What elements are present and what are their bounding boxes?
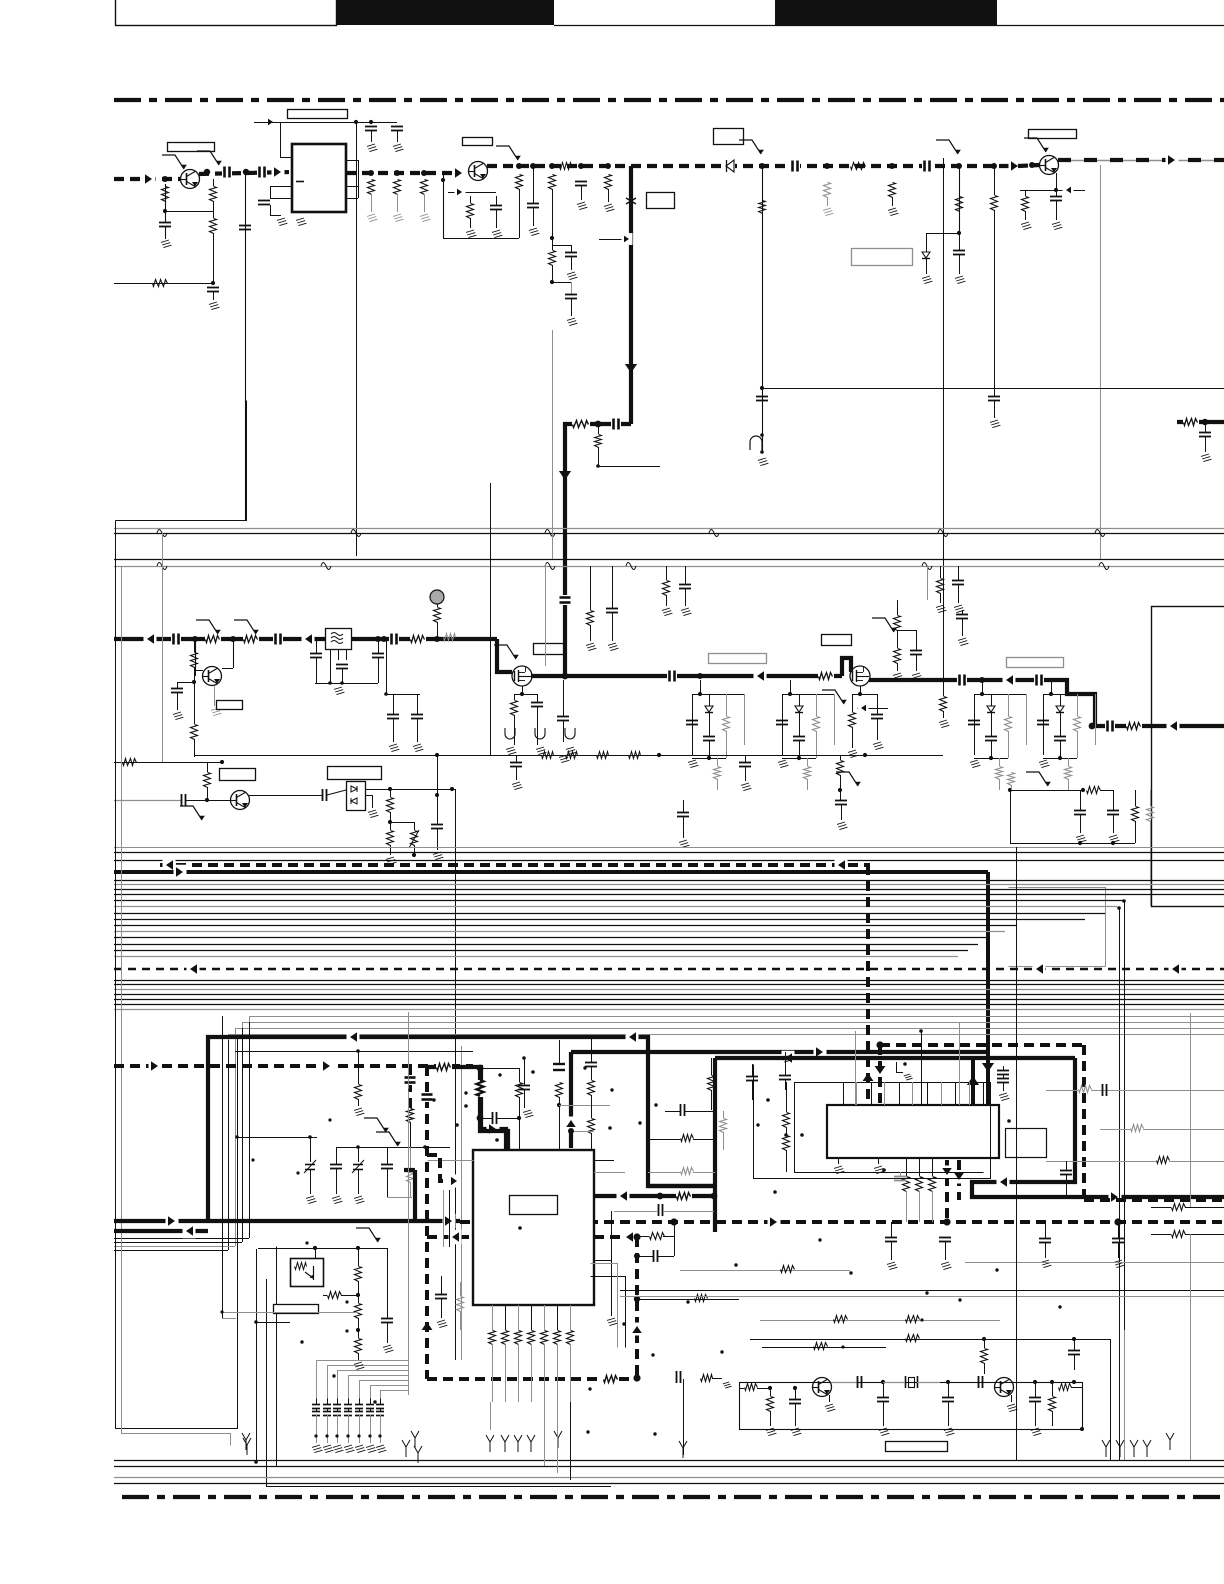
ground GL2 bbox=[536, 747, 546, 755]
ground GR12 bbox=[604, 204, 614, 212]
left margin vert2 bbox=[122, 567, 231, 1446]
resistor R68 h bbox=[1100, 1125, 1224, 1132]
wire hop bbox=[545, 563, 555, 570]
border dash-dot bottom bbox=[122, 1495, 1224, 1499]
node 994 bbox=[991, 163, 997, 169]
resistor R88 bbox=[595, 424, 602, 468]
ground GC63 bbox=[941, 1262, 951, 1270]
capacitor C62 bbox=[885, 1222, 897, 1260]
capacitor C51 bbox=[510, 755, 522, 780]
arrow ctrl3 bbox=[768, 1215, 781, 1230]
label box preDRV bbox=[709, 654, 767, 664]
ground GL1 bbox=[506, 747, 516, 755]
diode D1 series bbox=[723, 160, 735, 172]
resistor R47 bbox=[1132, 790, 1139, 843]
rail mid bottom bbox=[195, 753, 943, 757]
capacitor C12 bbox=[565, 295, 577, 317]
network match1 bbox=[686, 680, 745, 790]
bus line a1 bbox=[114, 847, 1224, 849]
ground GQ1 bbox=[161, 240, 171, 248]
dots U2 top bbox=[455, 1070, 612, 1142]
wire Q8 out bbox=[831, 1382, 857, 1384]
wire trim bot bbox=[387, 1197, 412, 1199]
capacitor array bbox=[355, 1398, 363, 1443]
wire 943 down bbox=[943, 158, 945, 680]
resistor R44 bbox=[837, 755, 844, 800]
ground GC41 bbox=[912, 673, 922, 681]
bold gate path bbox=[427, 1067, 506, 1150]
swoosh Q1 bbox=[162, 155, 187, 169]
resistor R79 h bbox=[739, 1384, 772, 1391]
bold ctrl dashed bbox=[460, 1218, 1224, 1225]
capacitor C48 series bbox=[182, 794, 231, 806]
ground GC62 bbox=[887, 1262, 897, 1270]
capacitor C45 bbox=[871, 694, 883, 740]
ground GCT2 bbox=[354, 1196, 364, 1204]
network match3 bbox=[968, 680, 1027, 790]
ground GR5 bbox=[367, 214, 377, 222]
shield outline gray bbox=[1009, 888, 1106, 967]
resistor R81 bbox=[1049, 1380, 1056, 1426]
capacitor array bbox=[344, 1398, 352, 1443]
opto outline box bbox=[266, 1279, 611, 1487]
bus line mid B bbox=[114, 533, 1224, 535]
wire 1016 bottom bbox=[1016, 1197, 1018, 1460]
ground GQ4 bbox=[211, 686, 221, 716]
node 892 bbox=[889, 163, 895, 169]
wire U2 pin bottom bbox=[570, 1305, 572, 1330]
capacitor array bbox=[376, 1398, 384, 1443]
arrow boxtop2 bbox=[626, 1030, 639, 1045]
arrow 1066a bbox=[149, 1059, 162, 1074]
resistor U2 pin bbox=[567, 1331, 574, 1345]
bold dashed vert947 bbox=[940, 1160, 955, 1222]
hook 415 bbox=[411, 1221, 419, 1448]
bus wire bbox=[114, 889, 1224, 891]
ground GR30 bbox=[586, 643, 596, 651]
arrow RX bbox=[163, 858, 176, 873]
bus wire lower bbox=[114, 1009, 1224, 1011]
ground GC87 bbox=[413, 744, 423, 752]
capacitor array bbox=[366, 1398, 374, 1443]
wire right 1296 bbox=[620, 1296, 1224, 1298]
wire U3 pin top bbox=[856, 1082, 858, 1105]
junction dot bbox=[818, 1238, 821, 1241]
wire U2 pin bottom bbox=[505, 1305, 507, 1330]
label box PA bbox=[1007, 658, 1064, 668]
ground GC40 bbox=[681, 608, 691, 616]
bus line a2 bbox=[114, 852, 1224, 854]
wire U2 pin drop bbox=[544, 1344, 546, 1402]
junction dot bbox=[686, 1300, 689, 1303]
wire AGC in bbox=[114, 281, 215, 285]
capacitor C11 bbox=[552, 245, 577, 270]
wire Q8 base up bbox=[771, 1347, 814, 1388]
wire U2 pin drop bbox=[557, 1344, 559, 1402]
wire Q6 out bold bbox=[531, 674, 842, 678]
capacitor C80 bbox=[1029, 1380, 1041, 1426]
wire U2 pin drop bbox=[531, 1344, 533, 1402]
wire hop bbox=[321, 563, 331, 570]
title block frame bbox=[116, 0, 337, 26]
capacitor C71 bbox=[746, 1064, 758, 1100]
hook 247 bbox=[243, 1438, 251, 1455]
wire U2 pin bottom bbox=[492, 1305, 494, 1330]
capacitor C46 bbox=[956, 610, 968, 636]
resistor R51 series bold bbox=[436, 1060, 452, 1074]
bottom rail 3 bbox=[114, 1477, 1224, 1479]
resistor R70 left1 bbox=[648, 1135, 715, 1142]
ground GC12 bbox=[567, 318, 577, 326]
resistor R23 series bbox=[1183, 415, 1199, 428]
bold dashed 1066 bbox=[114, 1064, 473, 1068]
junction dot bbox=[373, 1400, 376, 1403]
transistor Q1 bbox=[181, 170, 200, 189]
bold inner right bbox=[996, 1058, 1075, 1182]
fan left 1 bbox=[114, 1238, 249, 1240]
wire 683 drop bbox=[679, 1379, 687, 1458]
node mid 437 bbox=[434, 636, 440, 642]
resistor R61 bbox=[903, 1158, 910, 1222]
bus wire bbox=[114, 884, 1224, 886]
wire array fan bbox=[371, 1386, 409, 1399]
resistor U2 pin bbox=[502, 1331, 509, 1345]
resistor R40 bbox=[204, 762, 211, 802]
bold dashed 1237L bbox=[427, 1230, 473, 1245]
junction dot bbox=[995, 1268, 998, 1271]
ground array bbox=[344, 1445, 354, 1453]
capacitor C33 bbox=[372, 636, 384, 683]
arrow busmid bbox=[187, 962, 200, 977]
resistor U2 pin bbox=[515, 1331, 522, 1345]
wire U3 pin top bbox=[941, 1082, 943, 1105]
arrow gate bbox=[487, 1122, 500, 1137]
bus drop 249 bbox=[249, 1022, 251, 1238]
resistor rail series bbox=[566, 752, 578, 759]
wire 1190 vert bbox=[1190, 1013, 1192, 1207]
capacitor C49 series bbox=[323, 789, 347, 801]
resistor R16 bbox=[889, 183, 896, 207]
ground GC75 bbox=[791, 1428, 801, 1436]
arrow RX2 bbox=[835, 858, 848, 873]
wire cluster bottom bbox=[1010, 841, 1135, 845]
ground GC83 bbox=[332, 1196, 342, 1204]
wire drop 222 to opto bbox=[222, 1318, 236, 1320]
wire osc link bbox=[637, 1295, 739, 1302]
ground GR31 bbox=[662, 608, 672, 616]
resistor R5 bbox=[368, 180, 375, 213]
wire 1119 vert bbox=[1117, 906, 1121, 1460]
wire gray 1105 bbox=[559, 1105, 610, 1107]
wire 519 link bbox=[480, 1068, 520, 1082]
junction dot bbox=[300, 1340, 303, 1343]
label box Q2b bbox=[463, 138, 493, 146]
ground GC57 bbox=[523, 1110, 533, 1118]
bold y1196 left bbox=[590, 1189, 717, 1204]
bold dashed elbow bbox=[427, 1155, 463, 1181]
wire U2 pin bottom bbox=[518, 1305, 520, 1330]
hook A bbox=[402, 1440, 410, 1457]
ground GR6 bbox=[393, 214, 403, 222]
fet Q6 gate jog bbox=[497, 639, 512, 672]
capacitor C81 bbox=[1068, 1339, 1080, 1370]
ground GFL1 bbox=[334, 687, 344, 695]
resistor R39 series bbox=[123, 759, 137, 766]
wire U2 pin drop bbox=[570, 1344, 572, 1402]
node 700 bbox=[697, 673, 703, 679]
left margin vert bbox=[116, 521, 238, 1429]
bold ctrl return bbox=[114, 1224, 208, 1239]
bus wire bbox=[114, 906, 1117, 908]
resistor R7 bbox=[421, 180, 428, 213]
wire hop bbox=[1099, 563, 1109, 570]
ic U3 pll bbox=[827, 1105, 999, 1158]
bus line mid D bbox=[114, 566, 1224, 568]
capacitor C68 bbox=[1112, 1222, 1124, 1258]
wire opto right bbox=[220, 1310, 358, 1313]
wire 256 drop bbox=[254, 1249, 290, 1464]
wire hop bbox=[351, 530, 361, 537]
label box opto bbox=[274, 1305, 319, 1314]
fan left 4 bbox=[114, 1250, 228, 1252]
filter FL1 bbox=[326, 629, 352, 650]
collar 631 bbox=[626, 198, 636, 204]
wire 449 drop bbox=[444, 1190, 450, 1247]
bold box top bbox=[208, 1037, 715, 1221]
capacitor C67 bbox=[1039, 1222, 1051, 1258]
junction dot bbox=[651, 1353, 654, 1356]
wire Q4 base bbox=[195, 639, 203, 676]
diode D2 zener bbox=[922, 252, 930, 274]
resistor R33 bbox=[894, 649, 901, 672]
capacitor C74 small bbox=[779, 1052, 791, 1090]
bold dashed rect right bbox=[1082, 1045, 1086, 1200]
jumper loop bbox=[750, 433, 764, 454]
wire U1 top pin bbox=[280, 122, 292, 158]
bold dashed pair down2 bbox=[875, 1045, 886, 1103]
wire 959 down bbox=[957, 166, 961, 235]
bold dashed rect bottom bbox=[1084, 1198, 1224, 1202]
label box Q6 bbox=[534, 644, 564, 655]
capacitor C31 series bbox=[273, 633, 283, 645]
wire supply bold path bbox=[565, 424, 631, 676]
junction dot bbox=[654, 1103, 657, 1106]
bold gate vert bbox=[477, 1065, 508, 1150]
capacitor C84 bbox=[381, 1147, 393, 1197]
resistor R83 bbox=[981, 1339, 988, 1374]
ground GC29 bbox=[1201, 454, 1211, 462]
swoosh Q5 bbox=[180, 806, 205, 820]
ground GC11 bbox=[567, 272, 577, 280]
arrow mid l2 bbox=[302, 632, 315, 647]
capacitor C58 bbox=[553, 1040, 565, 1070]
capacitor C6 bbox=[365, 127, 377, 143]
resistor R74 bbox=[783, 1082, 790, 1135]
wire R11 down bbox=[552, 282, 572, 294]
node mid 384 bbox=[381, 636, 387, 642]
resistor R65 h bbox=[1151, 1204, 1224, 1211]
coil L2 bbox=[535, 728, 545, 739]
bold ctrl solid bbox=[114, 1219, 460, 1223]
capacitor C60 bbox=[435, 1276, 447, 1318]
wire U2 left1 bbox=[428, 1160, 474, 1162]
fan left 2 bbox=[114, 1242, 242, 1244]
capacitor C40 bbox=[679, 566, 691, 606]
wire right edge bold bbox=[1177, 419, 1224, 425]
ic U2 right pins bbox=[594, 1161, 625, 1277]
ground GC68 bbox=[1114, 1260, 1124, 1268]
capacitor C17 bbox=[953, 233, 965, 274]
label box D1 bbox=[714, 129, 744, 145]
bus wire lower bbox=[114, 984, 1224, 986]
wire 762 down bbox=[762, 166, 764, 452]
ground GR8 bbox=[466, 230, 476, 238]
ground GQ8 bbox=[825, 1395, 835, 1412]
varactor box VD2 bbox=[347, 782, 366, 811]
ground GR7 bbox=[420, 214, 430, 222]
resistor R71 left2 bbox=[648, 1168, 715, 1175]
wire U3 pin top bbox=[927, 1082, 929, 1105]
junction dot bbox=[408, 1088, 411, 1091]
ground GR89 bbox=[354, 1108, 364, 1116]
resistor R66 h bbox=[1151, 1231, 1224, 1238]
swoosh 959 bbox=[936, 140, 961, 154]
wire RF in dashed bbox=[114, 172, 181, 187]
bold dashed vert427 bbox=[422, 1066, 433, 1379]
ground GC19 bbox=[1052, 222, 1062, 230]
bus wire bbox=[114, 925, 1016, 927]
bus wire bbox=[114, 919, 1085, 921]
resistor R26 series bbox=[410, 632, 426, 646]
wire Q1 collector dashed bbox=[199, 169, 292, 175]
resistor R73 bbox=[720, 1111, 727, 1150]
wire array fan bbox=[349, 1376, 409, 1399]
ground GR16 bbox=[888, 208, 898, 216]
bold branch 973 bbox=[967, 1058, 979, 1104]
capacitor C58b bbox=[585, 1035, 597, 1080]
wire array fan bbox=[328, 1366, 409, 1399]
bus wire lower bbox=[114, 999, 1224, 1001]
ground GR60 bbox=[354, 1362, 364, 1370]
resistor R87 h bbox=[781, 1266, 795, 1273]
hook B bbox=[414, 1446, 422, 1463]
wire 625 step bbox=[591, 1277, 626, 1348]
dots trim bbox=[251, 1118, 331, 1174]
resistor R67 h bbox=[1046, 1086, 1224, 1093]
wire hop bbox=[709, 530, 719, 537]
label box U3r bbox=[1006, 1129, 1047, 1158]
resistor R25 series bbox=[243, 632, 259, 646]
bus bold dashed RX bbox=[160, 863, 870, 867]
resistor R90 bbox=[407, 1147, 414, 1197]
capacitor C28 series bold bbox=[559, 595, 571, 605]
swoosh Q2 bbox=[496, 146, 521, 160]
capacitor C56 series bold bbox=[421, 1092, 433, 1102]
wire osc right drop2 bbox=[1124, 1330, 1126, 1460]
wire chain dashed mid bbox=[631, 164, 1013, 168]
junction dot bbox=[586, 1430, 589, 1433]
wire array fan bbox=[338, 1371, 409, 1399]
junction dot bbox=[925, 1291, 928, 1294]
resistor R22 series bold bbox=[572, 417, 590, 431]
ground GR37 bbox=[939, 720, 949, 728]
capacitor C1 series bbox=[222, 166, 232, 178]
capacitor C38 series bbox=[1105, 720, 1115, 732]
resistor R9 bbox=[516, 175, 523, 239]
bottom rail 1 bbox=[114, 1460, 1224, 1462]
ground array bbox=[323, 1445, 333, 1453]
capacitor array bbox=[333, 1398, 341, 1443]
label box Q3 bbox=[1029, 130, 1077, 139]
ground array bbox=[376, 1445, 386, 1453]
ground array bbox=[312, 1445, 322, 1453]
bus wire lower bbox=[114, 989, 1224, 991]
bus drop 242 bbox=[242, 1028, 244, 1242]
ground GCT1 bbox=[306, 1196, 316, 1204]
ground GC46 bbox=[958, 638, 968, 646]
resistor R78 h bbox=[814, 1343, 828, 1350]
bus wire bbox=[114, 950, 968, 952]
bus wire lower bbox=[114, 980, 1224, 982]
ground array bbox=[366, 1445, 376, 1453]
ground GR84 bbox=[723, 1382, 732, 1388]
hooks row bbox=[501, 1431, 562, 1452]
node 563 join bbox=[562, 673, 569, 680]
network match4 bbox=[1037, 680, 1096, 790]
resistor R58 bbox=[355, 1248, 362, 1295]
resistor R56 bbox=[457, 1282, 464, 1330]
arrow supply down bbox=[559, 471, 571, 480]
capacitor C39 bbox=[606, 566, 618, 641]
trimmer CT1 bbox=[304, 1137, 316, 1194]
ground GC39 bbox=[608, 643, 618, 651]
ground GC52b bbox=[679, 840, 689, 848]
ground GC47b bbox=[173, 712, 183, 720]
resistor R59 bbox=[355, 1295, 362, 1332]
capacitor C35 series bbox=[667, 670, 677, 682]
wire 1016 vert bbox=[1016, 847, 1018, 1197]
transistor Q9 bbox=[995, 1378, 1014, 1397]
capacitor C25 series bbox=[611, 418, 621, 430]
wire U2 pin bottom bbox=[544, 1305, 546, 1330]
capacitor C4 bbox=[207, 288, 219, 301]
wire hop bbox=[157, 530, 167, 537]
swoosh 762 bbox=[739, 140, 764, 154]
wire trim rail2 bbox=[336, 1145, 450, 1149]
resistor R4 bbox=[153, 280, 168, 287]
wire zener branch bbox=[926, 233, 959, 252]
wire Q4 coll bbox=[222, 636, 236, 669]
ground GU1 bbox=[296, 218, 306, 226]
ground GC86 bbox=[389, 744, 399, 752]
wire osc in gray bbox=[114, 800, 181, 802]
wire osc out bbox=[365, 787, 455, 797]
resistor R3 bbox=[210, 201, 217, 284]
wire U3 pin top bbox=[871, 1082, 873, 1105]
resistor R69 h bbox=[1046, 1157, 1224, 1164]
bus wire bbox=[114, 944, 978, 946]
ground GC60 bbox=[437, 1320, 447, 1328]
wire U3 pin top bbox=[955, 1082, 957, 1105]
ground GC51 bbox=[512, 782, 522, 790]
arrow mid l5 bbox=[1167, 719, 1180, 734]
swoosh C2 bbox=[197, 151, 222, 165]
capacitor C19 bbox=[1050, 190, 1062, 220]
ground GQ9 bbox=[1007, 1395, 1017, 1412]
bus wire bbox=[114, 880, 1224, 882]
wire 570 bottom bbox=[570, 1402, 572, 1480]
wire 276 drop bbox=[276, 1247, 278, 1467]
